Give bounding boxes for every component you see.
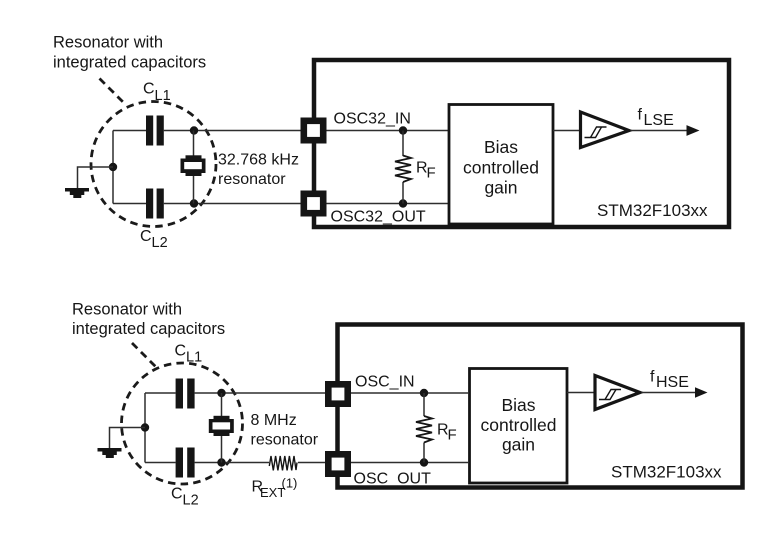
bias controlled gain box (HSE) xyxy=(470,369,568,484)
svg-text:controlled: controlled xyxy=(481,415,557,435)
svg-text:Resonator with: Resonator with xyxy=(72,301,182,319)
node junction ground tap (LSE) xyxy=(109,163,117,171)
annotation "Resonator with integrated capacitors" (HSE) xyxy=(72,301,225,339)
svg-text:STM32F103xx: STM32F103xx xyxy=(597,201,708,220)
ground symbol (HSE) xyxy=(98,448,122,458)
svg-text:C: C xyxy=(140,228,152,245)
label fLSE xyxy=(638,107,674,130)
svg-text:F: F xyxy=(427,165,436,182)
svg-text:C: C xyxy=(171,486,183,503)
node junction OSC32_OUT / crystal (LSE) xyxy=(190,199,198,207)
label fHSE xyxy=(650,369,689,392)
wire OSC_OUT row (resonator side) xyxy=(145,462,269,464)
svg-text:integrated capacitors: integrated capacitors xyxy=(72,320,225,338)
svg-text:OSC32_IN: OSC32_IN xyxy=(334,111,411,128)
capacitor CL2 (HSE) xyxy=(176,448,195,478)
STM32F103xx box (HSE) xyxy=(338,325,743,488)
capacitor CL1 (HSE) xyxy=(176,379,195,409)
label CL2 (HSE) xyxy=(171,486,199,509)
svg-text:LSE: LSE xyxy=(644,112,674,129)
svg-text:L2: L2 xyxy=(152,235,168,251)
resonator boundary dashed circle (HSE) xyxy=(122,363,243,484)
svg-text:gain: gain xyxy=(484,178,517,198)
wire OSC32_OUT row (resonator side) xyxy=(113,203,301,205)
label 32.768 kHz resonator xyxy=(218,152,299,189)
wire REXT to pin OSC_OUT xyxy=(298,462,325,464)
svg-text:L2: L2 xyxy=(183,492,199,508)
svg-text:integrated capacitors: integrated capacitors xyxy=(53,54,206,72)
op-amp U2 HSE oscillator amplifier with hysteresis xyxy=(595,376,640,410)
node junction OSC_OUT / crystal (HSE) xyxy=(217,458,225,466)
node RF bottom (LSE) xyxy=(399,199,407,207)
node junction OSC_IN / crystal (HSE) xyxy=(217,389,225,397)
wire OSC_IN to bias box xyxy=(351,392,468,394)
svg-text:C: C xyxy=(175,343,187,360)
svg-text:Resonator with: Resonator with xyxy=(53,34,163,52)
svg-text:f: f xyxy=(650,369,655,386)
svg-text:C: C xyxy=(143,81,155,98)
svg-text:f: f xyxy=(638,107,643,124)
svg-text:8 MHz: 8 MHz xyxy=(251,412,297,429)
svg-text:OSC32_OUT: OSC32_OUT xyxy=(331,209,426,226)
wire amplifier output fHSE xyxy=(642,392,698,394)
label CL1 (HSE) xyxy=(175,343,203,366)
wire to ground (HSE) xyxy=(110,428,146,449)
annotation "Resonator with integrated capacitors" (LSE) xyxy=(53,34,206,72)
crystal X2 8 MHz resonator xyxy=(209,393,234,463)
arrowhead fLSE output xyxy=(687,125,700,136)
svg-text:OSC_IN: OSC_IN xyxy=(355,374,415,391)
capacitor CL1 xyxy=(146,116,164,146)
svg-text:(1): (1) xyxy=(282,476,298,491)
label CL2 xyxy=(140,228,168,251)
label CL1 xyxy=(143,81,171,104)
wire bias box to amplifier (HSE) xyxy=(567,392,595,394)
svg-text:Bias: Bias xyxy=(501,395,535,415)
wire OSC_IN row (resonator side) xyxy=(145,392,325,394)
node junction ground tap (HSE) xyxy=(141,423,149,431)
wire amplifier output fLSE xyxy=(631,130,689,132)
label 8 MHz resonator xyxy=(251,412,319,449)
arrowhead fHSE output xyxy=(695,387,708,398)
label RF (LSE) xyxy=(416,160,436,182)
bias controlled gain box (LSE) xyxy=(449,105,553,225)
svg-text:controlled: controlled xyxy=(463,158,539,178)
wire bias box to amplifier (LSE) xyxy=(553,130,581,132)
svg-text:STM32F103xx: STM32F103xx xyxy=(611,463,722,482)
node RF bottom (HSE) xyxy=(420,458,428,466)
wire OSC32_OUT to bias box xyxy=(327,203,449,205)
svg-text:gain: gain xyxy=(502,435,535,455)
svg-text:F: F xyxy=(448,427,457,444)
leader dashed line to resonator circle (LSE) xyxy=(100,79,127,106)
wire left vertical (HSE) xyxy=(144,393,146,463)
svg-text:32.768 kHz: 32.768 kHz xyxy=(218,152,299,169)
svg-text:L1: L1 xyxy=(155,88,171,104)
svg-text:OSC_OUT: OSC_OUT xyxy=(354,471,432,488)
op-amp U1 LSE oscillator amplifier with hysteresis xyxy=(581,112,630,148)
wire OSC32_IN to bias box xyxy=(327,130,449,132)
wire to ground (LSE) xyxy=(78,167,114,189)
label Bias controlled gain (LSE) xyxy=(463,137,539,198)
pin OSC_IN xyxy=(328,384,347,403)
resonator boundary dashed circle (LSE) xyxy=(91,102,216,227)
pin OSC32_IN xyxy=(304,121,323,140)
label Bias controlled gain (HSE) xyxy=(481,395,557,455)
label REXT (1) xyxy=(252,476,298,501)
svg-text:Bias: Bias xyxy=(484,137,518,157)
svg-text:L1: L1 xyxy=(186,349,202,365)
node junction OSC32_IN / crystal (LSE) xyxy=(190,126,198,134)
resistor REXT (HSE) xyxy=(269,456,297,470)
ground symbol (LSE) xyxy=(65,188,89,198)
svg-text:HSE: HSE xyxy=(656,374,689,391)
label RF (HSE) xyxy=(437,422,457,444)
STM32F103xx box (LSE) xyxy=(314,60,729,227)
capacitor CL2 xyxy=(146,189,164,219)
svg-text:resonator: resonator xyxy=(251,432,319,449)
wire left vertical (LSE) xyxy=(112,131,114,204)
leader dashed line to resonator circle (HSE) xyxy=(132,343,157,368)
resistor RF (LSE) xyxy=(395,131,411,204)
pin OSC32_OUT xyxy=(304,194,323,213)
node RF top (LSE) xyxy=(399,126,407,134)
svg-text:resonator: resonator xyxy=(218,171,286,188)
wire OSC_OUT to bias box xyxy=(351,462,468,464)
pin OSC_OUT xyxy=(328,454,347,473)
wire OSC32_IN row (resonator side) xyxy=(113,130,301,132)
resistor RF (HSE) xyxy=(416,393,432,463)
node RF top (HSE) xyxy=(420,389,428,397)
crystal X1 32.768 kHz resonator xyxy=(181,131,206,204)
